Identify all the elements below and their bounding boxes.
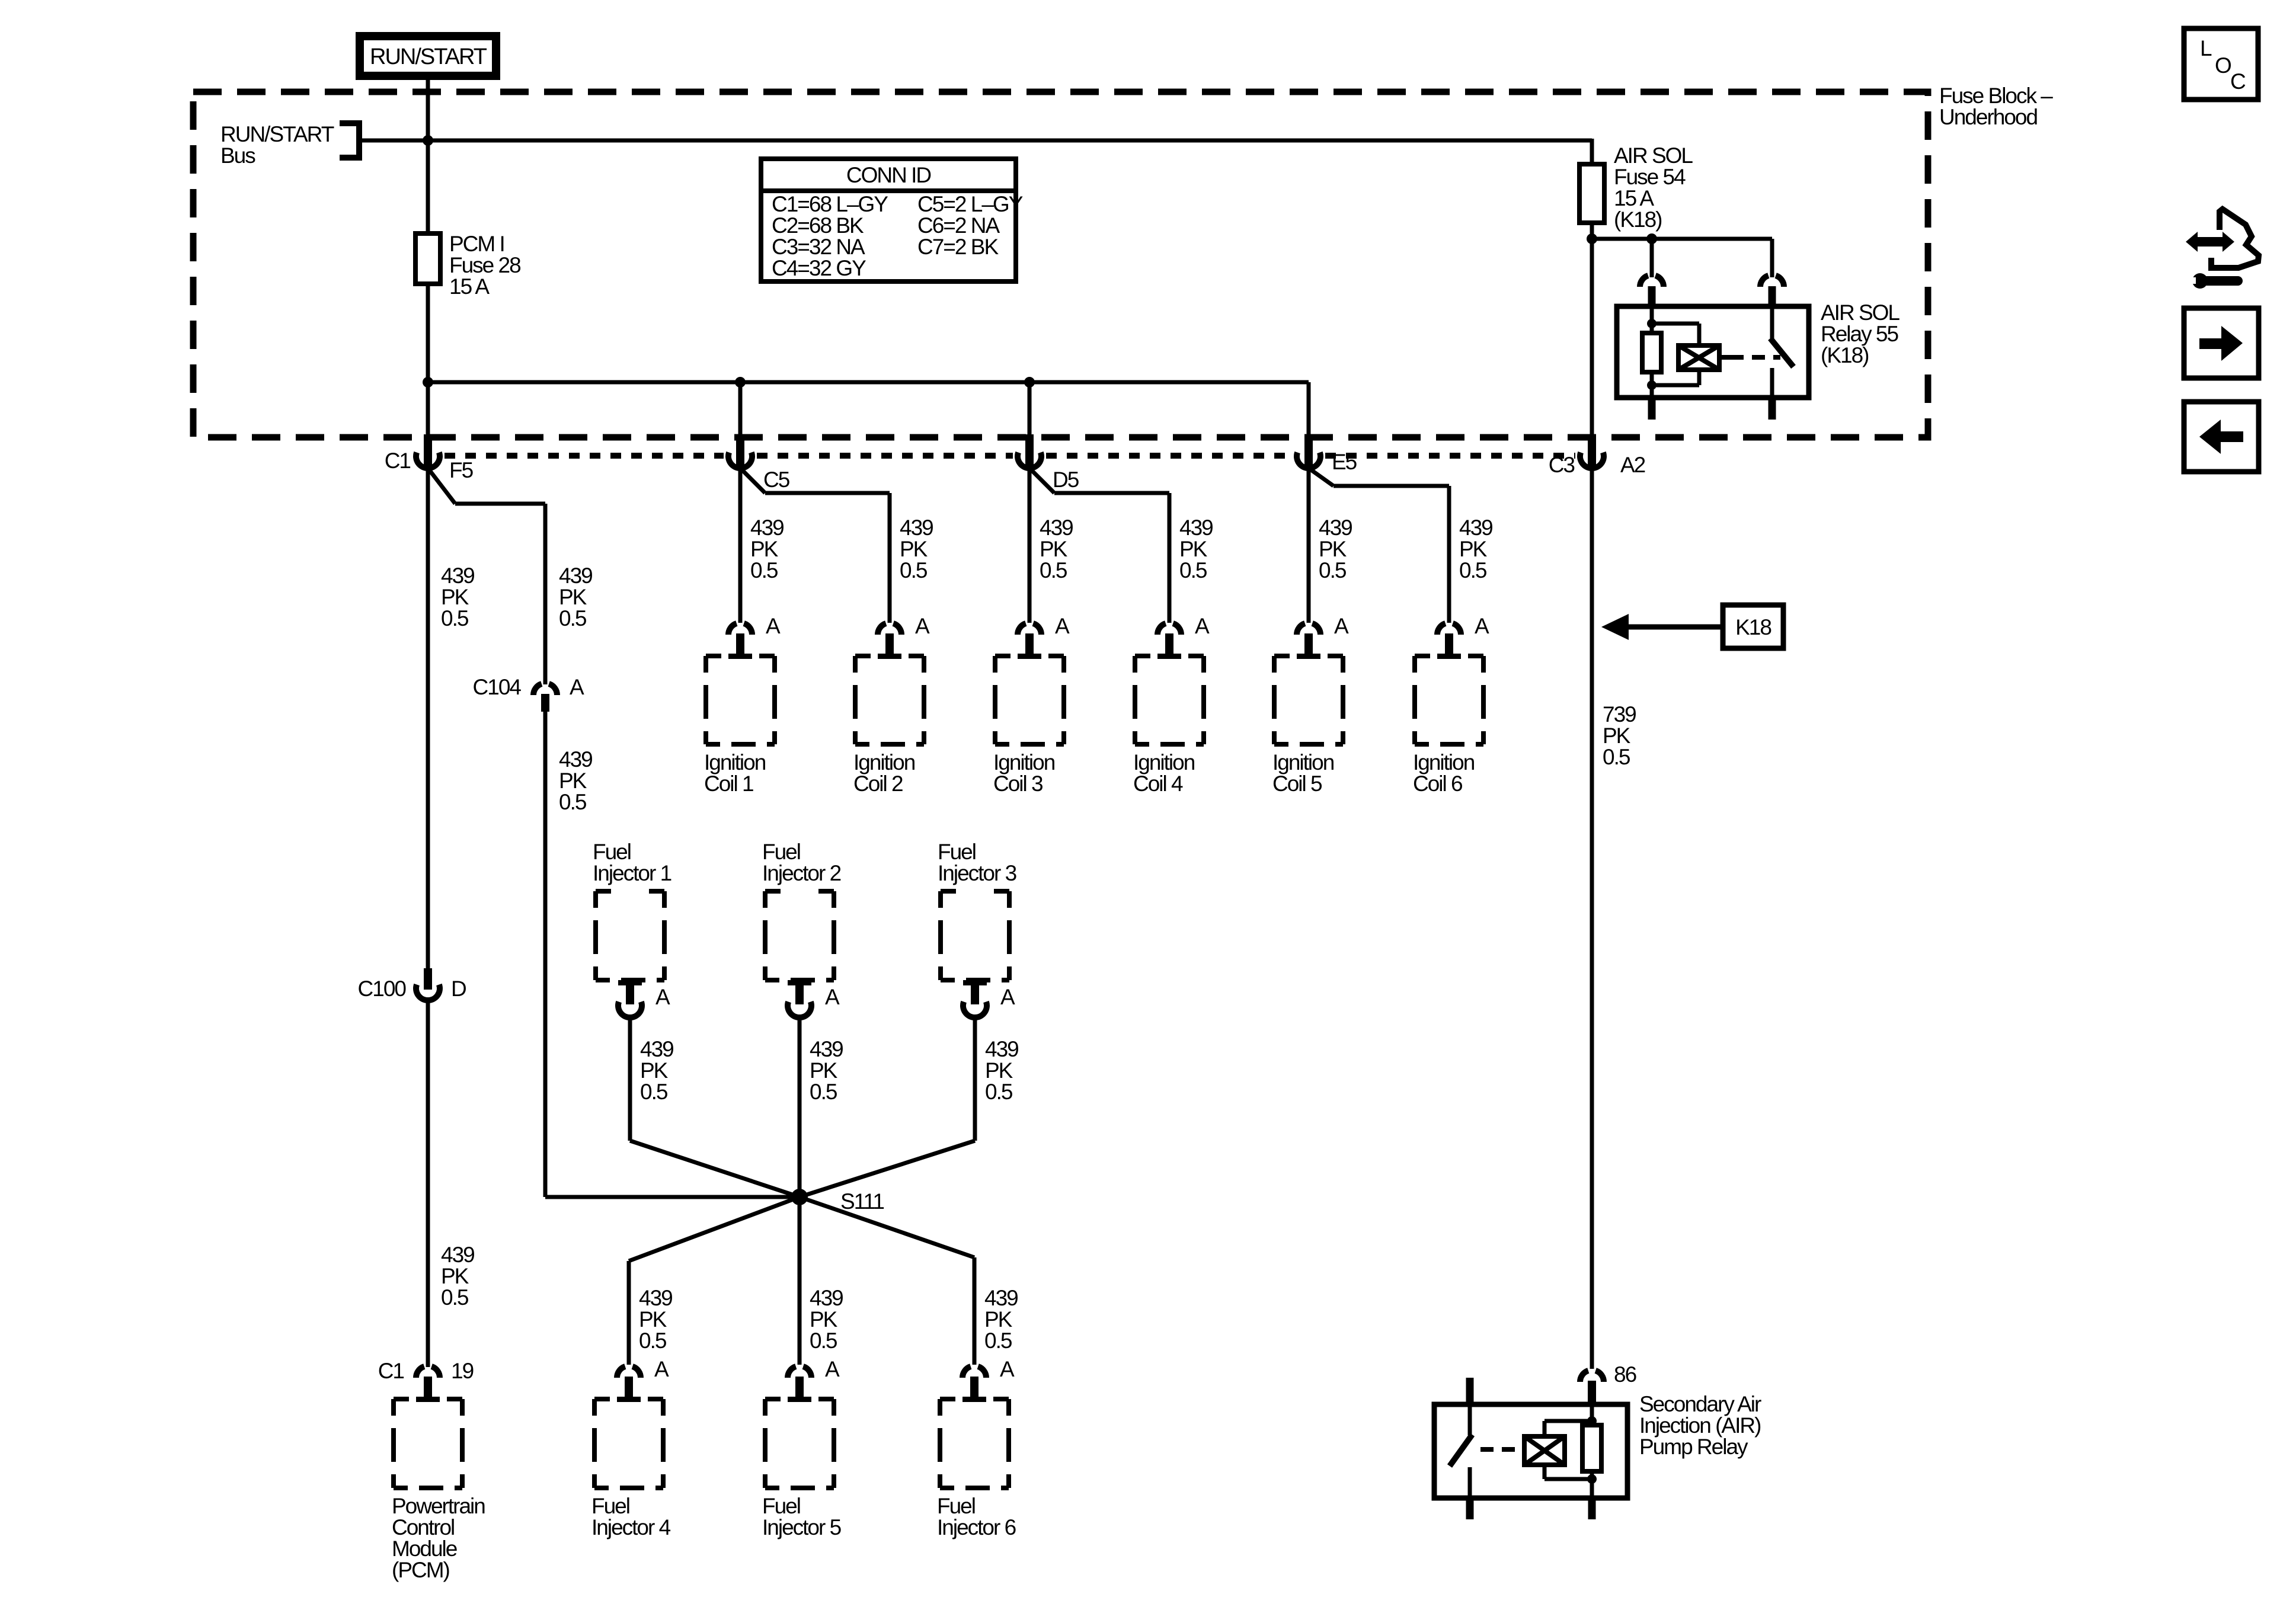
svg-text:A: A [825,985,840,1009]
connector A ignition coil 1 [728,614,781,659]
svg-text:Fuse 28: Fuse 28 [449,253,520,277]
svg-text:439: 439 [1179,516,1213,540]
svg-text:0.5: 0.5 [640,1080,668,1104]
svg-text:Fuel: Fuel [593,840,631,864]
label 439 PK 0.5 (injector 6 wire) [984,1286,1018,1353]
svg-text:Pump Relay: Pump Relay [1639,1435,1748,1459]
wire bus bracket to junction [359,139,428,143]
connector A ignition coil 6 [1437,614,1489,659]
connector C104 pin A [473,675,584,712]
connector C3 pin A2 [1549,434,1645,477]
svg-text:C4=32 GY: C4=32 GY [772,256,866,280]
svg-text:C6=2 NA: C6=2 NA [917,213,1000,238]
wire 439 PK C1 to C100 [426,468,430,969]
svg-text:L: L [2200,36,2212,60]
junction branch C1 [423,377,433,388]
ignition coil 6 box [1415,656,1483,744]
svg-text:Fuel: Fuel [937,1494,975,1518]
svg-text:15 A: 15 A [449,274,490,299]
svg-text:C1=68 L–GY: C1=68 L–GY [772,192,888,216]
connector A ignition coil 5 [1297,614,1349,659]
svg-text:Injector 3: Injector 3 [938,861,1016,885]
svg-text:439: 439 [1040,516,1073,540]
svg-text:0.5: 0.5 [1179,558,1207,582]
resistor relay 55 [1642,333,1661,372]
wire fuel injector 2 to S111 [798,1017,802,1197]
connector face dotted line [445,453,1575,459]
power feed box RUN/START [360,36,496,76]
ignition coil 3 box [995,656,1064,744]
resistor pump relay [1582,1425,1601,1471]
svg-text:A: A [1475,614,1489,638]
label Ignition Coil 1 [704,750,766,796]
label Fuse Block - Underhood [1939,84,2053,129]
fuel injector 3 box [941,891,1009,980]
svg-text:Module: Module [392,1537,457,1561]
svg-text:PK: PK [984,1307,1013,1331]
connector A ignition coil 4 [1157,614,1210,659]
label 439 PK 0.5 (injector 5 wire) [810,1286,843,1353]
pump relay coil lower wiring [1544,1465,1597,1498]
svg-text:Secondary Air: Secondary Air [1639,1392,1761,1416]
wire RUN/START bus horizontal [428,139,1592,166]
label 439 PK 0.5 (left wire) [441,564,474,630]
junction bus/feed [423,135,433,146]
module PCM box [394,1399,462,1488]
svg-text:Relay 55: Relay 55 [1821,322,1898,346]
label Ignition Coil 4 [1133,750,1195,796]
connector A fuel injector 4 [617,1357,669,1402]
wire C5 to ignition coil 2 [740,468,890,623]
relay 55 coil branch wiring [1647,306,1699,345]
relay 55 coil lower wiring [1647,370,1699,398]
svg-text:439: 439 [639,1286,672,1310]
svg-text:Powertrain: Powertrain [392,1494,485,1518]
connector A fuel injector 6 [962,1357,1015,1402]
svg-text:Injector 6: Injector 6 [937,1515,1016,1539]
fuel injector 1 box [596,891,664,980]
label 439 PK 0.5 (C104 wire) [559,564,592,630]
fuel injector 5 box [765,1399,834,1488]
wire E5 to ignition coil 6 [1309,468,1449,623]
svg-text:O: O [2215,53,2231,78]
svg-text:PK: PK [985,1058,1013,1083]
wire ignition branch horizontal [428,380,1309,385]
label Fuel Injector 6 [937,1494,1016,1539]
svg-text:A: A [1334,614,1349,638]
label 739 PK 0.5 [1603,702,1636,769]
wire 439 PK C104 to S111 [545,712,800,1197]
svg-text:PK: PK [1319,537,1347,561]
svg-text:PK: PK [559,769,587,793]
wire branch drop E5 [1307,382,1311,434]
svg-text:19: 19 [451,1359,474,1383]
label 439 PK 0.5 (injector 4 wire) [639,1286,672,1353]
svg-text:A: A [1195,614,1210,638]
svg-text:Bus: Bus [220,143,255,168]
relay 55 terminal coil-side (socket) [1640,276,1664,308]
label Fuel Injector 2 [762,840,841,885]
coil relay 55 [1678,345,1719,370]
svg-text:PCM I: PCM I [449,232,504,256]
svg-text:(PCM): (PCM) [392,1558,450,1582]
svg-text:PK: PK [1040,537,1068,561]
svg-text:0.5: 0.5 [441,1285,469,1310]
svg-text:C3=32 NA: C3=32 NA [772,235,865,259]
svg-text:RUN/START: RUN/START [370,44,487,69]
wire S111 to fuel injector 6 [800,1197,974,1365]
label Fuel Injector 1 [593,840,671,885]
label 439 PK 0.5 (coil 2 wire) [900,516,933,582]
reference K18 box with arrow [1601,605,1783,648]
label Ignition Coil 3 [993,750,1055,796]
wire fuel injector 3 to S111 [800,1017,975,1197]
svg-text:Injector 4: Injector 4 [591,1515,671,1539]
svg-text:439: 439 [559,564,592,588]
svg-text:A: A [1000,985,1015,1009]
relay U55 AIR SOL Relay box [1617,306,1809,398]
wire 739 PK C3 to relay 86 [1590,468,1594,1369]
svg-text:PK: PK [810,1058,838,1083]
svg-text:439: 439 [1319,516,1352,540]
icon arrow-left box [2184,402,2259,472]
svg-text:Coil 2: Coil 2 [853,772,903,796]
svg-text:PK: PK [441,1264,469,1288]
svg-text:PK: PK [810,1307,838,1331]
svg-text:A: A [915,614,930,638]
label 439 PK 0.5 (coil 3 wire) [1040,516,1073,582]
svg-text:439: 439 [441,564,474,588]
actuator dashed link relay 55 [1719,355,1780,360]
svg-text:0.5: 0.5 [559,790,587,814]
switch pump relay [1450,1378,1474,1498]
svg-text:739: 739 [1603,702,1636,726]
switch relay 55 [1770,306,1793,398]
svg-text:439: 439 [810,1286,843,1310]
svg-text:(K18): (K18) [1614,207,1662,232]
label Ignition Coil 2 [853,750,915,796]
svg-text:439: 439 [441,1243,474,1267]
svg-text:A: A [1000,1357,1015,1381]
label Secondary Air Injection (AIR) Pump Relay [1639,1392,1761,1459]
relay Secondary AIR Pump Relay box [1434,1404,1627,1498]
ignition coil 5 box [1274,656,1343,744]
svg-text:F5: F5 [449,458,474,482]
svg-text:439: 439 [984,1286,1018,1310]
svg-text:A: A [570,675,584,699]
svg-text:Ignition: Ignition [993,750,1055,774]
svg-text:PK: PK [441,585,469,609]
wire RUN/START feed vertical [426,76,430,434]
ignition coil 4 box [1135,656,1204,744]
svg-text:0.5: 0.5 [1040,558,1067,582]
actuator dashed link pump relay [1480,1447,1524,1452]
svg-text:Coil 4: Coil 4 [1133,772,1183,796]
label 439 PK 0.5 (injector 2 wire) [810,1037,843,1104]
svg-text:Injector 1: Injector 1 [593,861,671,885]
svg-text:A2: A2 [1620,453,1645,477]
table CONN ID [761,159,1023,281]
wire 439 PK C100 to PCM [426,1000,430,1367]
wire E5 to ignition coil 5 [1307,468,1311,623]
label 439 PK 0.5 (coil 5 wire) [1319,516,1352,582]
svg-text:0.5: 0.5 [810,1329,837,1353]
label 439 PK 0.5 (injector 3 wire) [985,1037,1018,1104]
wire D5 to ignition coil 3 [1028,468,1032,623]
label 439 PK 0.5 (injector 1 wire) [640,1037,673,1104]
icon LOC box [2184,28,2258,100]
label Fuel Injector 5 [762,1494,842,1539]
svg-text:Injection (AIR): Injection (AIR) [1639,1413,1761,1438]
wire branch drop D5 [1028,382,1032,434]
wire branch drop C5 [738,382,743,434]
svg-text:0.5: 0.5 [810,1080,837,1104]
svg-text:PK: PK [750,537,779,561]
svg-text:C100: C100 [358,977,407,1001]
svg-text:0.5: 0.5 [441,606,469,630]
connector A fuel injector 3 [963,980,1015,1017]
svg-text:C1: C1 [385,449,411,473]
svg-text:D5: D5 [1053,468,1079,492]
junction branch C5 [735,377,746,388]
fuse block underhood dashed border [193,92,1928,437]
fuel injector 4 box [594,1399,663,1488]
coil pump relay [1524,1436,1565,1465]
svg-text:Coil 1: Coil 1 [704,772,753,796]
svg-text:D: D [451,977,466,1001]
svg-text:AIR SOL: AIR SOL [1614,143,1693,168]
svg-text:K18: K18 [1735,615,1771,639]
label Powertrain Control Module (PCM) [392,1494,485,1582]
svg-text:Fuel: Fuel [762,1494,800,1518]
wire C5 to ignition coil 1 [738,468,743,623]
svg-text:A: A [825,1357,840,1381]
label AIR SOL Relay 55 (K18) [1821,300,1900,367]
svg-text:439: 439 [1459,516,1492,540]
svg-text:Coil 5: Coil 5 [1272,772,1322,796]
svg-text:PK: PK [640,1058,669,1083]
svg-text:PK: PK [1179,537,1208,561]
connector A fuel injector 1 [618,980,670,1017]
svg-text:C7=2 BK: C7=2 BK [917,235,999,259]
label Ignition Coil 5 [1272,750,1334,796]
svg-text:0.5: 0.5 [984,1329,1012,1353]
junction fuse54 output [1587,233,1597,244]
label Fuel Injector 3 [938,840,1016,885]
svg-text:Ignition: Ignition [853,750,915,774]
svg-text:Injector 5: Injector 5 [762,1515,842,1539]
svg-text:0.5: 0.5 [1319,558,1347,582]
svg-text:Coil 6: Coil 6 [1413,772,1462,796]
connector A fuel injector 5 [788,1357,840,1402]
node RUN/START Bus [220,120,359,168]
connector C100 pin D [358,968,466,1001]
svg-text:A: A [766,614,781,638]
svg-text:AIR SOL: AIR SOL [1821,300,1900,325]
wire S111 to fuel injector 5 [798,1197,802,1365]
fuse 28 PCM I [415,232,520,299]
connector C1 pin 19 (PCM) [378,1359,474,1402]
svg-text:E5: E5 [1332,450,1357,474]
svg-text:A: A [655,985,670,1009]
label Fuel Injector 4 [591,1494,671,1539]
svg-text:0.5: 0.5 [559,606,587,630]
svg-text:439: 439 [750,516,784,540]
svg-text:Ignition: Ignition [1272,750,1334,774]
label Ignition Coil 6 [1413,750,1475,796]
svg-text:439: 439 [985,1037,1018,1061]
connector A ignition coil 3 [1018,614,1070,659]
fuel injector 6 box [940,1399,1009,1488]
svg-text:A: A [1055,614,1070,638]
svg-text:A: A [654,1357,669,1381]
svg-text:0.5: 0.5 [985,1080,1013,1104]
icon arrow-right box [2184,308,2259,378]
svg-text:C2=68 BK: C2=68 BK [772,213,864,238]
connector D5 [1018,434,1079,492]
label 439 PK 0.5 (PCM wire) [441,1243,474,1310]
svg-text:PK: PK [639,1307,667,1331]
svg-text:0.5: 0.5 [1459,558,1487,582]
connector A fuel injector 2 [788,980,840,1017]
svg-text:Ignition: Ignition [1133,750,1195,774]
svg-text:PK: PK [1459,537,1488,561]
svg-text:Control: Control [392,1515,454,1539]
wire fuse block drop to C3 [1590,239,1594,434]
label 439 PK 0.5 (coil 6 wire) [1459,516,1492,582]
wire fuse54 to relay55 [1592,239,1772,277]
svg-text:Ignition: Ignition [704,750,766,774]
svg-text:C1: C1 [378,1359,404,1383]
connector C5 [728,434,790,492]
svg-text:PK: PK [1603,724,1631,748]
svg-text:CONN ID: CONN ID [846,163,931,187]
fuel injector 2 box [765,891,834,980]
label 439 PK 0.5 (below C104) [559,747,592,814]
svg-text:439: 439 [640,1037,673,1061]
svg-text:0.5: 0.5 [900,558,928,582]
svg-text:PK: PK [559,585,587,609]
wire 439 PK C1 jog to C104 [428,468,545,684]
pump relay bottom pins [1466,1498,1596,1519]
svg-text:S111: S111 [840,1189,884,1214]
svg-text:C3: C3 [1549,453,1575,477]
wire fuel injector 1 to S111 [630,1017,800,1197]
connector A ignition coil 2 [878,614,930,659]
svg-text:439: 439 [810,1037,843,1061]
splice S111 [791,1189,884,1214]
svg-text:439: 439 [559,747,592,772]
svg-text:439: 439 [900,516,933,540]
ignition coil 1 box [706,656,775,744]
svg-text:Fuel: Fuel [591,1494,629,1518]
svg-text:C5: C5 [763,468,790,492]
svg-text:Underhood: Underhood [1939,105,2038,129]
svg-text:0.5: 0.5 [639,1329,667,1353]
svg-text:Ignition: Ignition [1413,750,1475,774]
connector 86 (pump relay) [1580,1362,1636,1404]
relay 55 bottom pins [1648,398,1776,420]
label 439 PK 0.5 (coil 4 wire) [1179,516,1213,582]
svg-text:86: 86 [1614,1362,1636,1387]
svg-text:15 A: 15 A [1614,186,1654,210]
pump relay coil branch wiring [1544,1404,1597,1436]
svg-text:Injector 2: Injector 2 [762,861,841,885]
junction branch D5 [1024,377,1035,388]
svg-text:Fuel: Fuel [938,840,976,864]
svg-text:(K18): (K18) [1821,343,1869,367]
svg-text:C: C [2230,69,2246,94]
svg-text:RUN/START: RUN/START [220,122,334,146]
svg-text:0.5: 0.5 [1603,745,1630,769]
svg-text:C5=2 L–GY: C5=2 L–GY [917,192,1023,216]
svg-text:Fuse 54: Fuse 54 [1614,165,1686,189]
svg-text:Fuel: Fuel [762,840,800,864]
svg-text:Fuse Block –: Fuse Block – [1939,84,2053,108]
label 439 PK 0.5 (coil 1 wire) [750,516,784,582]
connector C1 pin F5 [385,434,474,482]
icon diagnostic (arrow, outline, wrench) [2186,209,2259,289]
wire S111 to fuel injector 4 [629,1197,800,1365]
relay 55 terminal switch-side (socket) [1760,276,1784,308]
ignition coil 2 box [855,656,924,744]
fuse 54 AIR SOL [1579,143,1693,239]
svg-text:C104: C104 [473,675,522,699]
svg-text:PK: PK [900,537,928,561]
junction relay55 coil feed [1646,233,1657,244]
connector E5 [1297,434,1357,474]
svg-text:0.5: 0.5 [750,558,778,582]
wire D5 to ignition coil 4 [1029,468,1169,623]
svg-text:Coil 3: Coil 3 [993,772,1043,796]
